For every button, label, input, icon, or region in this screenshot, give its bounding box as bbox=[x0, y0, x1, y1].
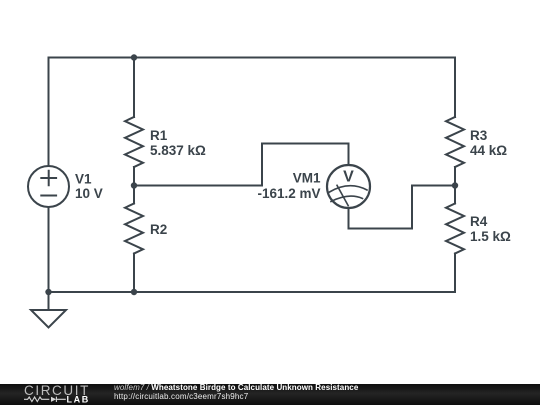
wire R3-R4 middle lead bbox=[454, 167, 456, 204]
node junction dot top (R1 top) bbox=[131, 54, 137, 60]
svg-text:-161.2 mV: -161.2 mV bbox=[257, 186, 320, 201]
svg-text:1.5 kΩ: 1.5 kΩ bbox=[470, 229, 511, 244]
footer url line bbox=[114, 392, 248, 401]
voltmeter VM1 needle bbox=[337, 185, 348, 205]
wire R4 bottom lead bbox=[454, 254, 456, 293]
footer title line bbox=[114, 383, 358, 392]
wire bridge left to voltmeter top bbox=[134, 144, 349, 186]
node junction dot bridge left (R1-R2) bbox=[131, 182, 137, 188]
wire R3 top lead bbox=[454, 58, 456, 118]
V1 minus sign bbox=[41, 195, 56, 197]
svg-text:R1: R1 bbox=[150, 128, 168, 143]
svg-text:V1: V1 bbox=[75, 172, 92, 187]
wire bottom rail bbox=[49, 291, 456, 293]
resistor R2 bbox=[125, 204, 143, 254]
wire R1-R2 middle lead bbox=[133, 167, 135, 204]
voltmeter VM1 scale arcs bbox=[330, 186, 368, 202]
resistor R1 bbox=[125, 117, 143, 167]
resistor R4 bbox=[446, 204, 464, 254]
svg-text:V: V bbox=[343, 169, 354, 186]
wire ground lead bbox=[48, 292, 50, 310]
svg-text:R4: R4 bbox=[470, 214, 488, 229]
svg-text:44 kΩ: 44 kΩ bbox=[470, 143, 507, 158]
resistor R3 bbox=[446, 117, 464, 167]
svg-text:R3: R3 bbox=[470, 128, 488, 143]
svg-text:R2: R2 bbox=[150, 222, 167, 237]
voltmeter VM1 circle bbox=[327, 165, 370, 208]
node junction dot bottom (R2 bottom) bbox=[131, 289, 137, 295]
svg-text:10 V: 10 V bbox=[75, 186, 103, 201]
svg-text:VM1: VM1 bbox=[293, 171, 321, 186]
svg-text:LAB: LAB bbox=[67, 394, 90, 404]
wire R2 bottom lead bbox=[133, 254, 135, 293]
wire R1 top lead bbox=[133, 58, 135, 118]
svg-text:5.837 kΩ: 5.837 kΩ bbox=[150, 143, 206, 158]
wire top rail bbox=[49, 57, 456, 59]
ground symbol bbox=[31, 310, 66, 328]
node junction dot bridge right (R3-R4) bbox=[452, 182, 458, 188]
logo resistor-diode squiggle bbox=[24, 397, 66, 402]
footer bar bbox=[0, 384, 540, 405]
wire left rail lower (V1 bottom to bottom rail) bbox=[48, 207, 50, 292]
logo diode triangle bbox=[51, 397, 56, 402]
node junction dot bottom left (ground) bbox=[45, 289, 51, 295]
CircuitLab logo wordmark bbox=[0, 384, 110, 405]
V1 plus sign bbox=[41, 171, 56, 185]
voltage source V1 circle bbox=[28, 166, 69, 207]
wire left rail upper (top rail to V1 top) bbox=[48, 58, 50, 167]
wire voltmeter bottom to bridge right bbox=[349, 186, 456, 229]
